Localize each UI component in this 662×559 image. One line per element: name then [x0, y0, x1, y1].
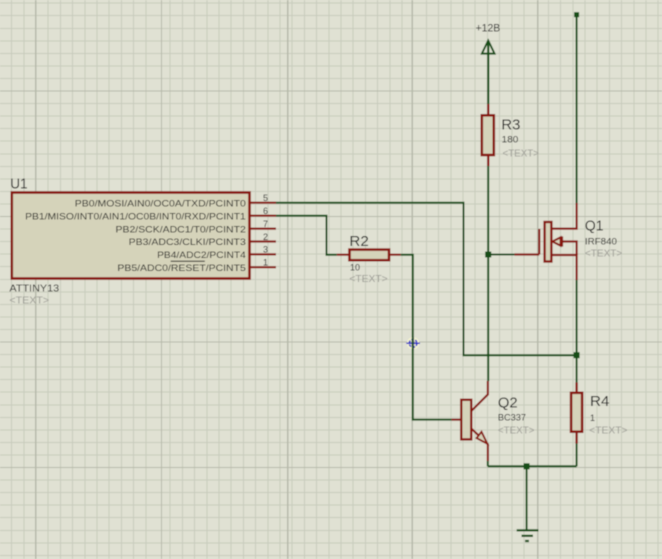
pin 1 stub [250, 266, 276, 268]
mosfet Q1 gate lead [515, 229, 540, 255]
wire R3 bottom to Q2 collector [487, 166, 489, 381]
junction node ground tap [524, 463, 530, 469]
resistor R4 body [571, 393, 582, 432]
svg-text:<TEXT>: <TEXT> [9, 295, 49, 306]
svg-text:ATTINY13: ATTINY13 [9, 284, 59, 295]
svg-text:180: 180 [502, 134, 519, 144]
svg-text:<TEXT>: <TEXT> [503, 148, 540, 159]
wire +12B power stem [487, 42, 489, 105]
svg-text:BC337: BC337 [498, 413, 526, 423]
svg-text:PB1/MISO/INT0/AIN1/OC0B/INT0/R: PB1/MISO/INT0/AIN1/OC0B/INT0/RXD/PCINT1 [25, 211, 246, 222]
svg-text:5: 5 [263, 193, 268, 203]
wire Q1 source down to node [576, 280, 578, 355]
transistor Q2 base lead [451, 419, 461, 421]
svg-text:1: 1 [590, 413, 595, 423]
resistor R3 body [482, 115, 494, 155]
pin 3 stub [250, 253, 276, 255]
power terminal +12B arrow [482, 41, 495, 54]
wire R4 bottom to bottom rail [576, 444, 578, 467]
wire ground stem [526, 466, 528, 530]
svg-text:<TEXT>: <TEXT> [498, 425, 535, 436]
svg-text:R4: R4 [590, 393, 609, 410]
svg-text:IRF840: IRF840 [585, 236, 617, 246]
svg-text:Q1: Q1 [585, 218, 604, 235]
transistor Q2 emitter arrowhead [477, 432, 488, 444]
svg-text:U1: U1 [10, 176, 27, 193]
svg-text:<TEXT>: <TEXT> [585, 249, 623, 260]
transistor Q2 collector [471, 381, 488, 411]
resistor R4 pins [575, 383, 577, 444]
transistor Q2 base bar [461, 400, 471, 440]
svg-text:PB4/ADC2/PCINT4: PB4/ADC2/PCINT4 [157, 250, 246, 261]
mosfet Q1 channel bar [545, 222, 552, 262]
svg-text:PB2/SCK/ADC1/T0/PCINT2: PB2/SCK/ADC1/T0/PCINT2 [116, 224, 246, 235]
IC U1 ATTINY13 body [12, 193, 250, 279]
wire R2 right to Q2 base [401, 255, 452, 420]
ground [517, 530, 539, 541]
svg-text:7: 7 [263, 219, 268, 229]
mosfet Q1 substrate lead [562, 242, 576, 256]
svg-text:10: 10 [350, 263, 360, 273]
mosfet Q1 substrate arrow [552, 237, 560, 245]
wire node to R4 top [576, 355, 578, 382]
wire pin6 net: U1 pin 6 to R2 left [276, 216, 337, 255]
svg-text:2: 2 [263, 232, 268, 242]
svg-text:R3: R3 [501, 116, 520, 133]
wire top rail to Q1 drain [576, 15, 578, 203]
transistor Q2 emitter [471, 429, 488, 462]
svg-text:+12B: +12B [476, 23, 501, 35]
svg-text:<TEXT>: <TEXT> [349, 274, 387, 285]
pin 7 stub [250, 228, 276, 230]
svg-text:1: 1 [263, 258, 268, 268]
wire bottom rail emitter to R4 [488, 461, 577, 466]
overline on RESET pin name [171, 260, 205, 262]
svg-text:PB5/ADC0/RESET/PCINT5: PB5/ADC0/RESET/PCINT5 [117, 263, 245, 274]
junction node gate/R3 [485, 252, 491, 258]
resistor R2 body [350, 250, 390, 261]
mosfet Q1 drain lead [552, 203, 577, 229]
node origin marker (blue crosshair) [406, 337, 419, 350]
wire Q1 gate net [488, 254, 514, 256]
junction node top rail end [574, 12, 579, 17]
pin 2 stub [250, 240, 276, 242]
svg-text:3: 3 [263, 245, 268, 255]
svg-text:Q2: Q2 [498, 395, 518, 412]
pin 6 stub [250, 215, 276, 217]
svg-text:PB0/MOSI/AIN0/OC0A/TXD/PCINT0: PB0/MOSI/AIN0/OC0A/TXD/PCINT0 [75, 198, 246, 209]
svg-text:R2: R2 [349, 233, 368, 250]
junction node source/R4 [574, 352, 580, 358]
svg-text:PB3/ADC3/CLKI/PCINT3: PB3/ADC3/CLKI/PCINT3 [129, 237, 246, 248]
svg-text:6: 6 [263, 206, 268, 216]
pin 5 stub [250, 202, 276, 204]
wire pin5 net: U1 pin 5 to node at (576.6,355.2) [276, 203, 577, 356]
resistor R3 pins [487, 104, 489, 166]
resistor R2 pins [337, 254, 401, 256]
svg-text:<TEXT>: <TEXT> [589, 426, 627, 437]
mosfet Q1 source lead [552, 255, 577, 280]
